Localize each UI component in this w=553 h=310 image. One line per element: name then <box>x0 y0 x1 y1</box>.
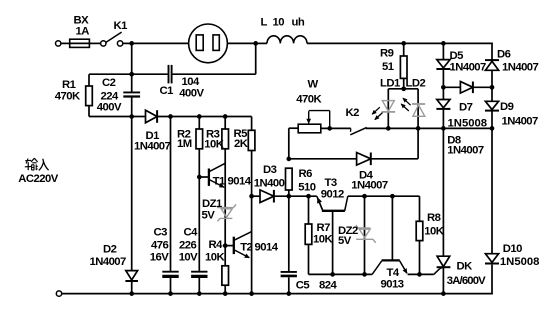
svg-text:R7: R7 <box>317 222 331 234</box>
svg-text:1N4007: 1N4007 <box>90 256 127 268</box>
diode D1 1N4007 <box>146 110 158 123</box>
label LD1 <box>380 78 400 90</box>
potentiometer W 470K <box>298 111 330 133</box>
svg-text:9014: 9014 <box>255 242 279 254</box>
transistor T4 9013 <box>372 196 407 274</box>
diode D9 1N4007 <box>485 101 499 110</box>
label D6 <box>497 49 511 61</box>
svg-text:1N4007: 1N4007 <box>502 116 539 128</box>
label C3 <box>154 227 168 239</box>
svg-text:5V: 5V <box>202 210 216 222</box>
wire D3 to T3 emitter <box>274 195 317 197</box>
svg-text:R8: R8 <box>427 212 441 224</box>
svg-text:L: L <box>261 17 268 29</box>
svg-text:16V: 16V <box>150 252 169 264</box>
node T junction (R9 to box) <box>401 86 406 91</box>
label DK <box>457 261 474 273</box>
label 输 (input char 1) <box>25 158 38 170</box>
node: AC input bottom terminal <box>56 291 61 296</box>
resistor R4 10K <box>222 266 229 294</box>
label 16V <box>150 252 169 264</box>
label W <box>308 79 319 91</box>
resistor R1 470K <box>86 74 132 116</box>
svg-text:C4: C4 <box>184 227 199 239</box>
fuse BX 1A <box>70 39 90 47</box>
svg-text:W: W <box>308 79 319 91</box>
svg-text:510: 510 <box>298 182 315 194</box>
node X junction (R8 bottom) <box>417 272 422 277</box>
thyristor DK 3A/600V <box>437 256 451 269</box>
label R6 <box>299 168 313 180</box>
svg-text:1N4007: 1N4007 <box>134 141 171 153</box>
junction dot C5-rail <box>286 291 291 296</box>
wire C2 to node F <box>131 98 133 117</box>
svg-text:1N4007: 1N4007 <box>447 145 484 157</box>
capacitor C2 224 400V <box>123 92 140 96</box>
zener DZ2 5V <box>356 225 376 243</box>
label 400V (C2) <box>97 102 122 114</box>
wire C1 to node B drop <box>172 43 255 74</box>
svg-text:T4: T4 <box>387 267 400 279</box>
label 10K (R4) <box>205 252 225 264</box>
wire node AA to D9 <box>491 87 493 101</box>
label R7 <box>317 222 331 234</box>
label 476 <box>151 240 168 252</box>
diode D8 1N4007 <box>436 100 450 109</box>
node S junction (LD2 bottom / D4 tap) <box>416 126 421 131</box>
label 1N4007 (D1) <box>134 141 171 153</box>
label 226 <box>179 240 196 252</box>
svg-text:T3: T3 <box>325 177 337 189</box>
node V junction (T3 base node) <box>330 272 335 277</box>
label R8 <box>427 212 441 224</box>
label C4 <box>184 227 199 239</box>
node E junction (R1/C1 tap) <box>129 72 134 77</box>
capacitor C3 476 16V <box>162 272 178 277</box>
node G junction (C3 column top) <box>168 114 173 119</box>
wire D1 to R5 corner <box>157 117 252 131</box>
node P junction (T4 base top) <box>390 194 395 199</box>
wire node E to C1 <box>132 73 168 75</box>
svg-text:C1: C1 <box>160 85 174 97</box>
socket CZ (outlet circle) <box>189 24 228 63</box>
wire node L to D3 <box>252 195 260 197</box>
resistor R7 10K <box>305 196 332 274</box>
wire node Y to D8 <box>442 87 444 99</box>
label 5V (DZ1) <box>202 210 216 222</box>
resistor R8 10K <box>416 221 423 274</box>
node Z junction (bridge low-left) <box>441 126 446 131</box>
svg-text:9014: 9014 <box>228 176 252 188</box>
node I junction (R3 top) <box>223 114 228 119</box>
label 9013 <box>381 279 404 291</box>
node N junction (R7 top) <box>306 194 311 199</box>
label R5 <box>234 128 248 140</box>
node: AC input top terminal <box>56 41 61 46</box>
node C junction (R9 tap) <box>401 41 406 46</box>
wire fuse to switch K1 <box>89 42 100 44</box>
label 51 <box>382 61 394 73</box>
diode D4 1N4007 <box>357 153 371 166</box>
junction dot D2-rail <box>129 291 134 296</box>
label 10K (R8) <box>424 226 444 238</box>
svg-text:DZ1: DZ1 <box>202 198 222 210</box>
junction dot R4-rail <box>223 291 228 296</box>
wire top rail: terminal to fuse <box>61 42 70 44</box>
svg-text:K1: K1 <box>114 20 128 32</box>
wire T3 collector to R8 corner <box>348 196 420 221</box>
node J junction (T1 base tap) <box>197 175 202 180</box>
svg-text:1M: 1M <box>177 138 192 150</box>
svg-text:D5: D5 <box>450 50 464 62</box>
svg-text:K2: K2 <box>346 107 360 119</box>
svg-text:T1: T1 <box>213 176 225 188</box>
svg-text:DK: DK <box>457 261 474 273</box>
svg-text:D6: D6 <box>497 49 511 61</box>
label R2 <box>177 129 191 141</box>
node R junction (LD1 bottom) <box>386 126 391 131</box>
svg-text:400V: 400V <box>179 88 204 100</box>
svg-text:1A: 1A <box>76 26 90 38</box>
svg-text:9012: 9012 <box>321 189 344 201</box>
wire R5 to T2/bottom <box>251 151 253 294</box>
resistor R5 2K <box>248 130 255 150</box>
label 1N4007 (D6) <box>502 62 539 74</box>
svg-text:1N4007: 1N4007 <box>351 180 388 192</box>
label 10K (R7) <box>313 234 333 246</box>
wire D8 to node Z <box>442 109 444 128</box>
label 5V (DZ2) <box>338 235 352 247</box>
svg-text:R6: R6 <box>299 168 313 180</box>
svg-text:10: 10 <box>273 17 285 29</box>
label AC220V <box>18 173 58 185</box>
resistor R3 10K <box>222 117 229 149</box>
LED box top wire <box>388 88 418 90</box>
label L 10 uh <box>261 17 305 29</box>
label 1N4007 (D3) <box>254 178 291 190</box>
LED LD2 <box>401 98 425 116</box>
wire R2 to C4 <box>198 149 200 271</box>
label R9 <box>380 48 394 60</box>
label 1N5008 (D10) <box>500 256 540 268</box>
label C5 824 <box>296 280 338 292</box>
junction dot T2-rail <box>249 291 254 296</box>
label D10 <box>503 243 522 255</box>
wire node C to node D <box>404 42 444 44</box>
wire node F to D1 <box>132 116 146 118</box>
diode D3 1N4007 <box>260 190 274 203</box>
node AB junction (bridge low-right) <box>490 126 495 131</box>
label R4 <box>209 239 224 251</box>
wire R3 to T1/DZ1/R4 chain <box>224 149 226 266</box>
label D5 <box>450 50 464 62</box>
svg-text:R9: R9 <box>380 48 394 60</box>
svg-text:C2: C2 <box>102 77 116 89</box>
svg-text:5V: 5V <box>338 235 352 247</box>
transistor T2 9014 <box>225 232 251 258</box>
label T4 <box>387 267 400 279</box>
resistor R2 1M <box>196 117 203 149</box>
LED LD1 <box>372 101 395 120</box>
wire D10 to bottom rail corner <box>491 265 493 295</box>
junction dot C4-rail <box>197 291 202 296</box>
capacitor C4 226 10V <box>191 272 207 277</box>
wire node G to C3 <box>170 117 172 271</box>
svg-text:51: 51 <box>382 61 394 73</box>
label D2 <box>103 244 117 256</box>
svg-text:1N4007: 1N4007 <box>502 62 539 74</box>
diode D10 1N5008 <box>485 254 499 264</box>
svg-text:10K: 10K <box>313 234 333 246</box>
capacitor C5 824 <box>281 272 297 276</box>
svg-text:476: 476 <box>151 240 168 252</box>
node H junction (R2 top) <box>197 114 202 119</box>
wire T4 emitter to DK gate <box>408 269 440 275</box>
node F junction (D1 line) <box>129 114 134 119</box>
svg-text:D7: D7 <box>459 102 473 114</box>
wire node M to C5 <box>288 196 290 271</box>
label 510 <box>298 182 315 194</box>
svg-text:R4: R4 <box>209 239 224 251</box>
label D7 <box>459 102 473 114</box>
label 470K (R1) <box>55 91 81 103</box>
label DZ1 <box>202 198 222 210</box>
label 2K <box>234 138 249 150</box>
wire pot left leg <box>289 128 298 159</box>
wire bridge right column to D10 <box>491 128 493 253</box>
svg-text:104: 104 <box>182 76 200 88</box>
svg-text:824: 824 <box>319 280 337 292</box>
resistor R9 51 <box>400 43 407 88</box>
zener DZ2 5V wire <box>364 196 366 274</box>
svg-text:D2: D2 <box>103 244 117 256</box>
label 1N4007 (D9) <box>502 116 539 128</box>
wire D6 to node AA <box>491 70 493 87</box>
node O junction (DZ2 top) <box>362 194 367 199</box>
diode D7 1N5008 (horizontal) <box>443 82 492 94</box>
junction dot C3-rail <box>168 291 173 296</box>
switch K1 <box>101 32 123 46</box>
transistor T1 9014 <box>199 163 225 187</box>
label 400V (C1) <box>179 88 204 100</box>
wire bridge left column to DK <box>442 128 444 256</box>
node AA junction (bridge mid-right) <box>490 85 495 90</box>
svg-text:10V: 10V <box>179 252 198 264</box>
label 1N5008 (D7) <box>448 118 488 130</box>
label R3 <box>206 129 220 141</box>
wire node B to inductor <box>256 42 267 44</box>
node Q junction (wiper tap) <box>327 126 332 131</box>
svg-text:470K: 470K <box>296 94 322 106</box>
wire C4 to bottom rail <box>198 278 200 294</box>
svg-text:9013: 9013 <box>381 279 404 291</box>
junction dot DK-rail <box>441 291 446 296</box>
wire DK to bottom rail <box>442 267 444 293</box>
wire D5 to node Y <box>442 69 444 87</box>
label 10V <box>179 252 198 264</box>
svg-text:2K: 2K <box>234 138 249 150</box>
svg-text:D10: D10 <box>503 243 522 255</box>
svg-text:uh: uh <box>292 17 305 29</box>
label K1 <box>114 20 128 32</box>
resistor R6 510 <box>286 168 293 196</box>
capacitor C1 104 400V <box>169 65 172 84</box>
wire socket to node B <box>227 42 255 44</box>
label D8 <box>447 135 461 147</box>
wire K2 to bridge (LED box bottom line) <box>366 127 492 129</box>
wire node U to D4 <box>289 158 357 160</box>
LED box right wire <box>417 89 419 129</box>
label T2 9014 <box>240 242 278 254</box>
wire D9 to node AB <box>491 111 493 129</box>
wire bridge left column top <box>442 43 444 59</box>
switch K2 <box>350 127 367 134</box>
wire main vertical lower (node F to D2) <box>131 117 133 271</box>
svg-text:3A/600V: 3A/600V <box>447 275 486 287</box>
node K junction (T2 base / R4 top) <box>223 243 228 248</box>
label 3A/600V <box>447 275 486 287</box>
label D3 <box>263 164 277 176</box>
label 1N4007 (D2) <box>90 256 127 268</box>
wire C3 to bottom rail <box>170 278 172 294</box>
svg-text:400V: 400V <box>97 102 122 114</box>
wire inductor to node C <box>307 42 404 44</box>
label 104 <box>182 76 200 88</box>
label BX <box>74 15 90 27</box>
label D9 <box>500 101 514 113</box>
diode D2 1N4007 <box>125 271 138 281</box>
label 入 (input char 2) <box>39 159 49 171</box>
node D junction (D5 top) <box>441 41 446 46</box>
label C2 <box>102 77 116 89</box>
label 1M <box>177 138 192 150</box>
svg-text:C3: C3 <box>154 227 168 239</box>
svg-text:D9: D9 <box>500 101 514 113</box>
svg-text:1N5008: 1N5008 <box>500 256 540 268</box>
wire D4 to node S <box>371 128 418 158</box>
svg-text:D3: D3 <box>263 164 277 176</box>
label 224 <box>101 91 119 103</box>
label D1 <box>146 130 160 142</box>
svg-text:T2: T2 <box>240 242 252 254</box>
node Y junction (bridge mid-left) <box>441 85 446 90</box>
wire D2 to bottom rail <box>131 281 133 294</box>
svg-text:R1: R1 <box>62 79 76 91</box>
svg-text:C5: C5 <box>296 280 310 292</box>
label 9012 <box>321 189 344 201</box>
wire node V to T4 <box>333 273 373 275</box>
transistor T3 9012 <box>317 196 348 274</box>
svg-text:LD2: LD2 <box>406 78 426 90</box>
zener DZ1 5V <box>217 204 236 221</box>
diode D6 1N4007 <box>485 60 499 70</box>
svg-text:226: 226 <box>179 240 196 252</box>
label 470K (W) <box>296 94 322 106</box>
label K2 <box>346 107 360 119</box>
label 10K (R3) <box>204 139 224 151</box>
wire K1 to node A <box>123 42 132 44</box>
label DZ2 <box>338 225 358 237</box>
label 1N4007 (D8) <box>447 145 484 157</box>
label D4 <box>359 170 374 182</box>
svg-text:AC220V: AC220V <box>18 173 58 185</box>
node A junction (main vertical top) <box>129 41 134 46</box>
svg-text:470K: 470K <box>55 91 81 103</box>
wire node A to socket <box>132 42 189 44</box>
wire C5 to bottom rail <box>288 277 290 293</box>
label R1 <box>62 79 76 91</box>
node B junction <box>253 41 258 46</box>
svg-text:1N5008: 1N5008 <box>448 118 488 130</box>
svg-text:10K: 10K <box>204 139 224 151</box>
label 1A <box>76 26 90 38</box>
node U junction (R6 top / pot leg) <box>286 157 291 162</box>
svg-text:1N4007: 1N4007 <box>450 62 487 74</box>
wire node D to top-right corner <box>443 43 492 61</box>
label LD2 <box>406 78 426 90</box>
wire main vertical upper (node A to C2) <box>131 43 133 91</box>
svg-text:10K: 10K <box>205 252 225 264</box>
label 1N4007 (D5) <box>450 62 487 74</box>
LED box left wire <box>387 89 389 129</box>
node M junction (R6/C5 column) <box>286 194 291 199</box>
wire bottom rail <box>62 293 493 295</box>
svg-text:10K: 10K <box>424 226 444 238</box>
label C1 <box>160 85 174 97</box>
inductor L 10uh <box>267 36 307 44</box>
label 1N4007 (D4) <box>351 180 388 192</box>
node W2 junction (DZ2 bottom) <box>362 272 367 277</box>
node L junction (D3 line left) <box>249 194 254 199</box>
diode D5 1N4007 <box>436 60 450 69</box>
svg-text:LD1: LD1 <box>380 78 400 90</box>
svg-text:BX: BX <box>74 15 90 27</box>
label T1 9014 <box>213 176 252 188</box>
wire pot to K2 <box>321 128 351 131</box>
label T3 <box>325 177 337 189</box>
